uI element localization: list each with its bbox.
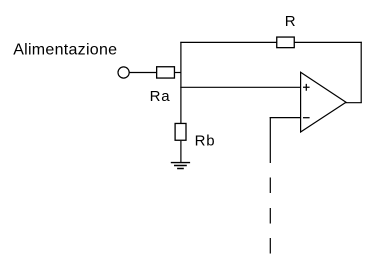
wire op-amp output	[346, 102, 362, 104]
resistor Rb	[175, 123, 186, 140]
op-amp minus pin mark	[303, 117, 310, 119]
wire terminal to Ra	[129, 72, 156, 74]
wire inverting input	[270, 117, 301, 119]
ground	[171, 163, 190, 169]
wire Ra to node	[175, 72, 181, 74]
input terminal (circle)	[118, 67, 129, 78]
resistor Ra	[157, 67, 175, 78]
wire right vertical	[360, 42, 362, 103]
op-amp U1	[301, 72, 346, 132]
svg-text:Alimentazione: Alimentazione	[13, 42, 117, 59]
resistor R	[277, 37, 295, 48]
wire non-inverting input	[180, 86, 300, 88]
svg-text:Ra: Ra	[150, 88, 171, 105]
dashed continuation wire	[269, 178, 271, 254]
svg-text:R: R	[285, 13, 296, 30]
op-amp plus pin mark	[303, 84, 310, 91]
wire top feedback	[180, 41, 361, 43]
svg-text:Rb: Rb	[195, 133, 216, 150]
wire Rb to ground	[180, 141, 182, 163]
wire left vertical node	[180, 42, 182, 123]
wire inverting vertical solid	[269, 117, 271, 163]
